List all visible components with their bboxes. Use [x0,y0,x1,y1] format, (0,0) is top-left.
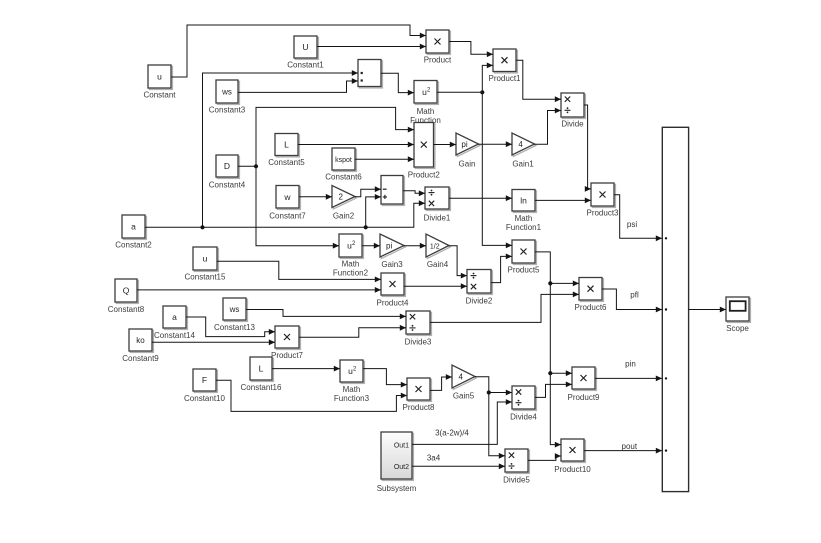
constant Constant (u) [143,65,176,100]
mux port mark input 1 [665,237,667,239]
wire Product7 to Divide3 input 2 [299,325,406,337]
gain block Gain3 (pi) [380,234,405,269]
svg-text:Subsystem: Subsystem [377,484,417,493]
wire Constant5 L to Product2 input 2 [298,142,414,148]
wire Product6 to mux input 2 [602,289,662,312]
svg-text:a: a [131,222,136,232]
constant Constant7 (w) [269,186,306,221]
gain block Gain (pi) [456,133,480,169]
svg-text:3(a-2w)/4: 3(a-2w)/4 [435,429,469,438]
wire Subsystem Out2 to Divide5 input 2 [412,463,505,469]
constant Constant5 (L) [268,134,305,168]
svg-text:pi: pi [461,140,467,149]
svg-text:Product9: Product9 [567,393,600,402]
wire Constant2 a trunk [145,200,425,227]
svg-text:L: L [259,364,264,374]
wire Constant14 a to Product7 input 1 [186,317,275,337]
svg-text:pout: pout [622,442,638,451]
wire Constant13 ws to Divide3 input 1 [246,310,406,320]
svg-text:4: 4 [518,140,523,149]
constant Constant6 (kspot) [325,148,362,182]
wire Math Function2 to Gain3 [362,243,380,249]
svg-text:2: 2 [339,192,344,201]
sum block (- +) [381,176,404,206]
svg-text:Product4: Product4 [376,299,409,308]
math function block Math Function3 (u^2) [334,360,370,403]
wire Product10 to mux input 4 [584,448,662,454]
svg-text:ko: ko [136,336,145,345]
svg-text:ws: ws [229,305,240,314]
svg-text:Gain2: Gain2 [333,212,355,221]
wire Product3 to mux input 1 [614,195,662,241]
svg-text:Product2: Product2 [408,171,441,180]
svg-text:F: F [202,375,207,385]
mux block (4 inputs) [662,127,688,491]
wire junction up to Product1 input 2 [482,63,493,93]
svg-text:Product10: Product10 [554,465,591,474]
wire junction to Product6 input 1 [550,281,579,287]
wire mux to Scope [689,307,726,313]
wire Constant6 kspot to Product2 input 3 [355,156,414,162]
wire Gain1 to Divide input 2 [535,108,562,145]
constant Constant3 (ws) [209,80,246,115]
product block Product5 [507,240,540,275]
wire Math Function1 to Product3 input 2 [535,198,591,204]
svg-text:Product5: Product5 [507,266,540,275]
svg-text:Out1: Out1 [394,442,409,449]
wire Subsystem Out1 to Divide4 input 2 [412,399,512,444]
svg-text:Divide2: Divide2 [466,297,493,306]
wire Gain5 to riser [475,377,505,459]
svg-text:Gain: Gain [459,160,476,169]
wire Divide3 to Product6 input 2 [430,292,579,323]
wire Divide1 to Math Function1 ln [449,195,512,201]
constant Constant9 (ko) [122,329,159,363]
constant Constant10 (F) [184,369,225,403]
svg-text:Constant9: Constant9 [122,354,159,363]
gain block Gain1 (4) [512,133,536,169]
wire Constant16 L to Math Function3 [272,366,340,372]
svg-text:Gain3: Gain3 [381,260,403,269]
divide block Divide4 (x over div) [510,386,537,422]
svg-text:Constant3: Constant3 [209,106,246,115]
svg-text:3a4: 3a4 [427,453,441,462]
wire Constant u to Product input 1 [172,25,427,77]
svg-text:u: u [157,72,162,82]
wire D branch up to Product2 input 1 [256,107,414,166]
svg-text:pfl: pfl [630,291,639,300]
mux port mark input 3 [665,377,667,379]
wire Product5 to junction chain [535,252,561,448]
wire Gain4 to Divide2 input 1 [449,246,467,279]
wire Constant9 ko to Product7 input 2 [152,339,275,345]
subsystem block Subsystem (Out1, Out2) [377,432,417,493]
svg-text:pin: pin [625,359,636,368]
product block Product7 [271,326,304,360]
junction node u-squared branch [480,90,484,94]
constant Constant13 (ws) [214,298,255,332]
product block Product9 [567,367,600,402]
svg-text:Constant2: Constant2 [115,241,152,250]
svg-text:Math: Math [417,107,435,116]
mux port mark input 2 [665,308,667,310]
wire Math Function3 to Product8 input 1 [363,369,407,388]
svg-text:Gain5: Gain5 [453,392,475,401]
gain block Gain2 (2) [332,186,356,221]
constant Constant15 (u) [185,247,226,282]
junction node D branch [254,164,258,168]
constant Constant16 (L) [241,357,282,392]
svg-text:Constant15: Constant15 [185,273,226,282]
wire a branch up to sum input 1 [203,70,359,227]
signal label 3(a-2w)/4 [435,429,469,438]
svg-text:Product7: Product7 [271,351,304,360]
constant Constant2 (a) [115,215,152,250]
svg-text:Constant4: Constant4 [209,181,246,190]
product block Product10 [554,439,591,474]
svg-text:Constant: Constant [143,91,176,100]
svg-text:Product8: Product8 [402,403,435,412]
wire a branch up to sum2 plus input [366,194,381,227]
wire sum2 to Divide1 input 1 [403,190,425,196]
svg-text:Divide4: Divide4 [510,413,537,422]
signal label pout [622,442,638,451]
svg-text:Divide1: Divide1 [424,214,451,223]
svg-text:4: 4 [459,372,464,381]
svg-text:Divide3: Divide3 [405,338,432,347]
mux port mark input 4 [665,449,667,451]
wire Constant1 U to Product input 2 [317,44,426,50]
signal label pin [625,359,636,368]
constant Constant14 (a) [154,306,195,340]
svg-text:Function3: Function3 [334,394,370,403]
wire Math Function to junction [437,91,482,93]
svg-text:U: U [302,42,308,52]
wire Product8 to Gain5 [430,374,452,390]
product block Product3 [586,183,619,218]
wire D branch down to Math Function2 [256,166,339,248]
wire Constant8 Q to Product4 input 2 [137,287,381,293]
sum block (unlabeled, ++) [358,60,382,88]
wire Product to Product1 input 1 [449,42,493,58]
signal label 3a4 [427,453,441,462]
svg-text:Product3: Product3 [586,209,619,218]
svg-text:Divide5: Divide5 [503,476,530,485]
constant Constant1 (U) [287,36,324,70]
gain block Gain4 (1/2) [426,234,450,269]
svg-text:Constant1: Constant1 [287,61,324,70]
svg-text:L: L [284,140,289,150]
math function block Math Function2 (u^2) [333,234,369,278]
wire Gain3 to Gain4 [404,243,426,249]
wire sum to Math Function [381,73,414,95]
svg-text:Divide: Divide [561,120,584,129]
svg-text:Constant5: Constant5 [268,158,305,167]
junction node Gain5 branch [487,390,491,394]
scope block Scope [726,297,750,333]
junction node Product5 out at Product9 row [548,371,552,375]
svg-text:Math: Math [342,260,360,269]
svg-text:Constant6: Constant6 [325,173,362,182]
product block Product8 [402,378,435,412]
constant Constant4 (D) [209,155,246,190]
wire Divide4 to Product9 input 2 [535,382,572,398]
svg-text:Constant16: Constant16 [241,383,282,392]
wire Constant7 w to Gain2 [299,194,332,200]
svg-text:w: w [283,192,291,202]
wire Constant15 u to Product4 input 1 [217,261,381,282]
junction node on a trunk at x202 [200,225,204,229]
wire Divide2 to Product5 input 2 [491,254,512,283]
svg-text:Constant8: Constant8 [108,305,145,314]
divide block Divide1 (div over x) [424,187,451,223]
wire Product4 to Divide2 input 2 [404,283,467,289]
svg-text:ws: ws [221,88,232,97]
svg-text:Gain1: Gain1 [512,160,534,169]
math function block Math Function (u^2) [410,81,441,126]
svg-text:Out2: Out2 [394,464,409,471]
wire Constant3 ws to sum input 2 [238,78,358,92]
svg-text:Scope: Scope [726,324,749,333]
gain block Gain5 (4) [452,365,476,401]
constant Constant8 (Q) [108,279,145,314]
svg-text:Math: Math [343,385,361,394]
product block Product2 (3 inputs) [408,123,441,180]
svg-text:Product6: Product6 [574,303,607,312]
svg-text:Constant13: Constant13 [214,323,255,332]
svg-text:Constant14: Constant14 [154,331,195,340]
divide block Divide5 (x over div) [503,449,530,485]
divide block Divide (x over div) [561,93,585,129]
svg-text:u: u [203,254,208,264]
wire Constant4 D to junction [238,165,256,167]
product block Product [424,30,452,65]
wire Gain2 to sum2 minus input [355,186,381,196]
divide block Divide3 (x over div) [405,311,432,347]
svg-text:psi: psi [627,220,637,229]
product block Product1 [488,49,521,83]
signal label psi [627,220,637,229]
signal label pfl [630,291,639,300]
svg-text:Product1: Product1 [488,74,521,83]
svg-text:Function1: Function1 [506,223,542,232]
wire Product2 to Gain [434,142,457,148]
svg-text:Q: Q [123,286,130,296]
svg-text:ln: ln [520,195,527,205]
svg-text:D: D [224,161,230,171]
svg-text:Constant10: Constant10 [184,394,225,403]
wire Divide to Product3 input 1 [584,105,591,192]
product block Product6 [574,278,607,313]
svg-text:kspot: kspot [335,157,352,164]
wire Divide5 to Product10 input 2 [528,453,561,460]
wire Constant10 F to Product8 input 2 [216,380,407,411]
wire Product1 to Divide input 1 [516,60,561,102]
svg-text:Math: Math [515,214,533,223]
wire Gain5 branch to Divide4 input 1 [489,390,512,396]
svg-text:1/2: 1/2 [430,243,440,250]
svg-text:Constant7: Constant7 [269,212,306,221]
svg-text:Function2: Function2 [333,269,369,278]
wire Product9 to mux input 3 [595,376,662,382]
svg-text:Product: Product [424,56,452,65]
math function block Math Function1 (ln) [506,190,542,233]
svg-text:pi: pi [386,241,392,250]
product block Product4 [376,273,409,308]
wire junction to Product9 input 1 [550,370,572,376]
wire junction down to Product5 input 1 [482,92,512,248]
junction node Product5 out at Product6 row [548,281,552,285]
wire Gain to Gain1 [479,141,513,147]
junction node on a trunk at x366 [364,225,368,229]
divide block Divide2 (div over x) [466,270,493,306]
svg-text:Gain4: Gain4 [427,260,449,269]
svg-text:a: a [172,312,177,322]
